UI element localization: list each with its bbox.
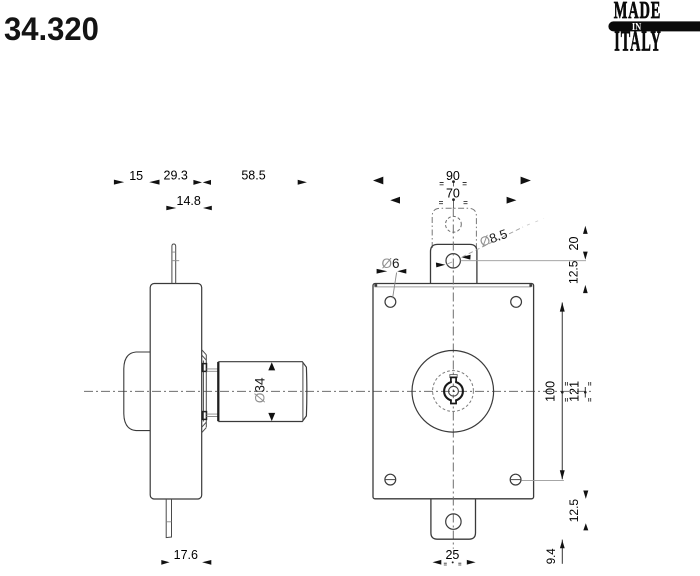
faceplate screw bottom — [202, 412, 206, 420]
dim 25 dot — [452, 561, 454, 563]
dim 70 arrow right — [507, 197, 517, 204]
svg-text:17.6: 17.6 — [174, 548, 198, 562]
svg-text:Ø6: Ø6 — [381, 256, 399, 271]
key cylinder ring — [444, 382, 463, 401]
dim 9.4 arrow — [560, 540, 565, 548]
dim 70 equals marks — [439, 201, 468, 203]
dia 8.5 arrow upper-right — [461, 255, 471, 260]
top rod — [172, 244, 176, 284]
dim 90-70 vertical line — [453, 183, 455, 208]
svg-text:12.5: 12.5 — [567, 499, 581, 523]
svg-text:34.320: 34.320 — [4, 11, 99, 48]
bottom tab hole — [446, 514, 461, 529]
dim 100 arrow down — [560, 470, 565, 479]
cylinder left face — [217, 362, 219, 421]
top tab — [431, 244, 477, 283]
corner mark right — [529, 284, 532, 287]
svg-text:ITALY: ITALY — [614, 25, 662, 57]
svg-text:121: 121 — [567, 381, 581, 402]
dim 15 arrow left — [114, 180, 124, 185]
dim 17.6 arrow left — [161, 560, 169, 565]
hole top-left — [385, 297, 396, 308]
dim 121 equals marks — [589, 382, 591, 402]
bottom rod tick — [166, 521, 171, 523]
bottom tab — [431, 499, 476, 539]
dim 121 line — [584, 387, 586, 398]
horizontal centerline — [84, 390, 592, 392]
hole bottom-right — [510, 474, 521, 485]
vertical centerline — [452, 208, 454, 549]
dim 15 arrow right — [149, 180, 159, 185]
dim 70 arrow left — [390, 197, 400, 204]
cylinder body — [218, 362, 307, 422]
svg-text:14.8: 14.8 — [177, 194, 201, 208]
svg-text:Ø8.5: Ø8.5 — [478, 226, 510, 250]
top tab phantom outline — [432, 208, 476, 248]
dim 90 arrow right — [521, 177, 531, 185]
svg-text:12.5: 12.5 — [567, 260, 581, 284]
dim 100 equals marks — [565, 382, 567, 402]
dim 25 arrow left — [433, 560, 442, 565]
dim 12.5 bottom arrow up — [583, 523, 588, 530]
dim 20 arrow up — [583, 226, 588, 234]
corner mark left — [374, 284, 377, 287]
side body — [150, 284, 202, 500]
made in italy logo — [608, 0, 700, 57]
dia 6 arrow left — [377, 269, 388, 274]
dim 29.3 arrow pair — [193, 180, 202, 185]
key cylinder center dot — [453, 390, 455, 392]
dim 20 arrow down — [583, 252, 588, 260]
svg-text:MADE: MADE — [614, 0, 662, 24]
svg-text:9.4: 9.4 — [546, 548, 558, 565]
dim 121 dot — [584, 391, 587, 394]
top tab hole — [446, 254, 460, 268]
key cylinder inner circle — [449, 386, 459, 396]
svg-text:20: 20 — [567, 237, 581, 251]
dim 90 dot — [452, 180, 455, 183]
dim 100 arrow up — [560, 302, 565, 311]
svg-text:Ø34: Ø34 — [253, 377, 268, 403]
svg-text:25: 25 — [445, 548, 459, 562]
dim 58.5 arrow right — [298, 180, 307, 185]
bottom rod — [166, 499, 171, 538]
svg-text:70: 70 — [446, 186, 460, 200]
dim 70 dot — [452, 198, 455, 201]
dia34 arrow down — [268, 413, 275, 421]
svg-text:29.3: 29.3 — [164, 169, 188, 183]
dia 8.5 leader dashes — [446, 262, 452, 265]
dim 90 arrow left — [373, 177, 383, 185]
phantom hole circle — [446, 216, 462, 232]
top rod tick — [172, 252, 179, 261]
boss dashed circle — [433, 371, 474, 412]
dia 6 arrow right — [397, 269, 406, 274]
key tab top light rect — [450, 375, 457, 378]
hole bottom-left — [385, 474, 396, 485]
cam lobe — [124, 352, 150, 431]
key tab top heavy — [451, 377, 456, 382]
dim 25 equals marks — [444, 563, 462, 565]
dim 100 dot — [561, 391, 564, 394]
tab hole leader — [461, 260, 587, 262]
dim 100 line — [561, 303, 563, 480]
hole top-right — [511, 297, 522, 308]
key tab channel knockouts — [452, 377, 455, 384]
svg-text:58.5: 58.5 — [241, 168, 265, 182]
dia 8.5 arrow lower-left — [436, 263, 445, 268]
dim 14.8 arrow left — [166, 206, 176, 211]
dim 12.5 top arrow — [583, 285, 588, 293]
front body — [373, 284, 534, 499]
central boss circle — [412, 351, 494, 433]
dim 9.4 line — [561, 540, 563, 564]
faceplate screw top — [202, 364, 206, 372]
svg-text:100: 100 — [544, 381, 558, 402]
dim 14.8 arrow right — [203, 206, 212, 211]
faceplate chamfers — [202, 350, 207, 433]
svg-text:15: 15 — [129, 169, 143, 183]
dim 17.6 arrow right — [202, 560, 211, 565]
dim 90 equals marks — [440, 183, 467, 185]
hole leader bottom right — [521, 480, 564, 482]
faceplate — [203, 355, 206, 427]
dia 6 leader — [393, 273, 397, 299]
logo bar — [608, 21, 700, 31]
dim 12.5 bottom arrow down — [583, 491, 588, 499]
cylinder end line — [302, 362, 304, 421]
dim 25 arrow right — [467, 560, 476, 565]
key tab bottom heavy — [451, 400, 456, 404]
dia34 arrow up — [268, 362, 275, 370]
front body inner top line — [375, 286, 532, 288]
connecting bars — [207, 369, 219, 417]
